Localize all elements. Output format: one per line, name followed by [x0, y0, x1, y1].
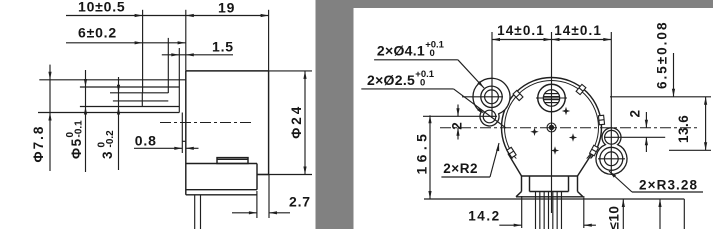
svg-text:3: 3 [100, 150, 115, 159]
svg-text:19: 19 [218, 0, 235, 16]
svg-text:0.8: 0.8 [135, 132, 157, 148]
svg-text:2×R3.28: 2×R3.28 [639, 177, 698, 192]
svg-text:6±0.2: 6±0.2 [78, 25, 117, 41]
svg-text:10±0.5: 10±0.5 [78, 0, 126, 15]
svg-text:0: 0 [430, 48, 435, 59]
svg-text:Φ7.8: Φ7.8 [31, 125, 46, 163]
svg-text:2: 2 [628, 109, 643, 117]
svg-text:14.2: 14.2 [468, 209, 500, 224]
svg-text:-0.1: -0.1 [74, 120, 85, 138]
svg-text:1.5: 1.5 [212, 39, 234, 55]
svg-text:-0.2: -0.2 [105, 130, 116, 148]
svg-text:2.7: 2.7 [289, 194, 311, 210]
svg-text:14±0.1: 14±0.1 [554, 23, 602, 38]
svg-text:2: 2 [450, 122, 465, 130]
svg-text:Φ24: Φ24 [289, 104, 304, 139]
svg-text:Φ5: Φ5 [69, 137, 84, 159]
svg-text:≤10: ≤10 [607, 206, 622, 229]
svg-text:6.5±0.08: 6.5±0.08 [655, 21, 670, 89]
svg-text:0: 0 [420, 78, 425, 89]
svg-text:16.5: 16.5 [414, 130, 430, 175]
svg-text:+0.1: +0.1 [425, 40, 444, 51]
svg-text:2×Ø4.1: 2×Ø4.1 [377, 43, 425, 59]
svg-text:2×R2: 2×R2 [443, 161, 478, 176]
svg-text:14±0.1: 14±0.1 [497, 23, 545, 38]
svg-text:2×Ø2.5: 2×Ø2.5 [367, 72, 415, 88]
svg-text:13.6: 13.6 [676, 115, 691, 143]
